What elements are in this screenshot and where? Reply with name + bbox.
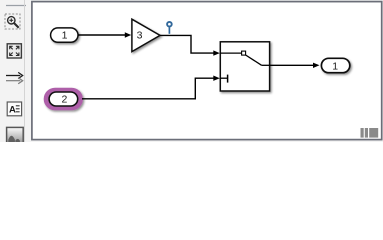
svg-text:1: 1 bbox=[332, 60, 338, 72]
sidebar vertical separator bbox=[24, 0, 26, 142]
switch output internal lead bbox=[262, 64, 270, 66]
switch input 2 contact tick bbox=[227, 75, 229, 83]
switch input 1 internal lead bbox=[220, 52, 241, 54]
signal logging badge on gain output bbox=[167, 22, 172, 34]
inport block 1 (oval) bbox=[51, 28, 78, 42]
image/picture button (clipped at bottom) bbox=[7, 127, 24, 143]
sidebar top separator line bbox=[6, 5, 26, 7]
wire: gain to switch input 1 bbox=[160, 35, 220, 55]
wire: inport2 to switch input 2 bbox=[82, 76, 220, 99]
fit-to-view button bbox=[7, 44, 21, 58]
switch pivot square bbox=[242, 51, 246, 55]
svg-text:A: A bbox=[9, 104, 16, 115]
zoom tool dashed selection box bbox=[5, 14, 20, 29]
sidebar background bbox=[0, 0, 383, 142]
double right-arrow icon bbox=[6, 72, 23, 83]
zoom tool magnifier icon bbox=[8, 17, 19, 28]
svg-text:3: 3 bbox=[137, 30, 143, 42]
annotation A-list button bbox=[7, 102, 21, 116]
svg-text:1: 1 bbox=[62, 30, 68, 42]
switch block (manual switch) bbox=[220, 42, 269, 91]
switch input 2 stub bbox=[220, 77, 227, 79]
wire: switch to outport bbox=[270, 63, 320, 68]
svg-text:2: 2 bbox=[61, 93, 67, 105]
outport block 1 (oval) bbox=[321, 58, 349, 72]
canvas frame bbox=[32, 2, 382, 140]
resize grip bars bottom-right bbox=[361, 128, 379, 138]
inport block 2 highlight ring bbox=[46, 90, 81, 108]
inport block 2 (oval) bbox=[49, 92, 78, 106]
wire: inport1 to gain bbox=[78, 32, 131, 37]
gain block G (triangle, value 3) bbox=[132, 19, 160, 51]
switch arm diagonal bbox=[246, 55, 262, 65]
